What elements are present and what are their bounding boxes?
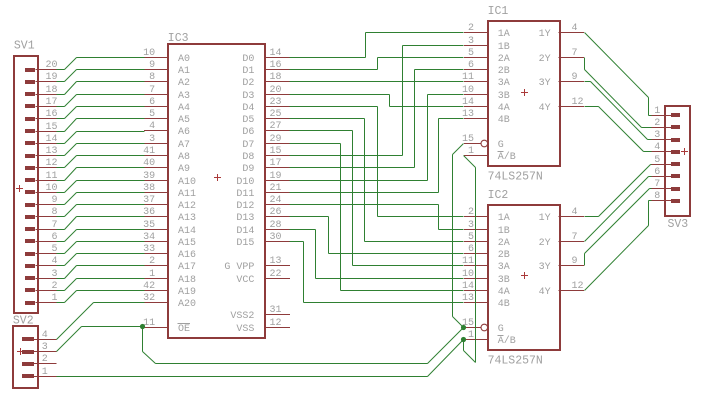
SV3 pin 7	[651, 179, 680, 191]
wire net A11 : SV1 pin 9 to IC3 A11	[57, 193, 145, 205]
svg-text:A17: A17	[178, 262, 196, 273]
IC3 pin A19 (pin 42)	[143, 281, 196, 298]
IC1 pin 3Y (pin 9)	[539, 72, 584, 89]
IC3 pin D8 (pin 15)	[242, 146, 289, 163]
IC2 pin A/B (pin 1)	[464, 330, 516, 347]
svg-text:A12: A12	[178, 201, 196, 212]
svg-text:2A: 2A	[498, 238, 510, 249]
wire net A/B : IC2 A/B junction up to IC1 A/B	[464, 156, 476, 363]
svg-text:A5: A5	[178, 115, 190, 126]
svg-text:A/B: A/B	[498, 151, 516, 163]
IC3 pin A20 (pin 32)	[143, 293, 196, 310]
svg-text:9: 9	[149, 60, 155, 71]
svg-text:D3: D3	[242, 91, 254, 102]
SV1 pin 8	[25, 207, 58, 219]
svg-text:8: 8	[654, 191, 660, 202]
SV1 pin 4	[25, 256, 58, 268]
IC1 pin G (pin 15) with inverter bubble	[462, 134, 504, 151]
SV1 pin 3	[25, 269, 58, 280]
svg-text:18: 18	[45, 85, 57, 96]
IC1 pin A/B (pin 1)	[464, 146, 516, 163]
IC2 pin 3Y (pin 9)	[539, 256, 584, 273]
svg-text:1: 1	[468, 330, 474, 341]
wire net D11 : IC3 D11 to IC1 4B	[290, 119, 464, 193]
SV2 pin 1	[22, 367, 57, 378]
svg-text:D1: D1	[242, 66, 254, 77]
wire net A4 : SV1 pin 16 to IC3 A4	[57, 107, 145, 119]
SV1 pin 13	[25, 146, 58, 158]
svg-text:32: 32	[143, 293, 155, 304]
wire net Y4 : IC1 4Y to SV3 pin 4	[585, 107, 652, 152]
SV1 pin 9	[25, 195, 58, 207]
svg-text:27: 27	[270, 121, 282, 132]
svg-text:D7: D7	[242, 140, 254, 151]
svg-text:A7: A7	[178, 140, 190, 151]
svg-text:4: 4	[572, 207, 578, 218]
wire net A18 : SV1 pin 2 to IC3 A18	[57, 279, 145, 291]
wire net D9 : IC3 D9 to IC1 2B	[290, 70, 464, 168]
svg-text:14: 14	[462, 97, 474, 108]
svg-text:D6: D6	[242, 127, 254, 138]
svg-text:2Y: 2Y	[539, 238, 551, 249]
IC3 pin A0 (pin 10)	[143, 48, 190, 65]
wire net A2 : SV1 pin 18 to IC3 A2	[57, 82, 145, 95]
svg-text:14: 14	[462, 281, 474, 292]
IC2 pin G (pin 15) with inverter bubble	[462, 318, 504, 335]
svg-text:13: 13	[462, 109, 474, 120]
IC3 pin G VPP (pin 13)	[224, 256, 289, 273]
wire net A/B : SV2 pin 1 across to IC2 A/B	[57, 340, 464, 377]
svg-text:D12: D12	[236, 201, 254, 212]
svg-text:4Y: 4Y	[539, 103, 551, 114]
svg-text:D8: D8	[242, 152, 254, 163]
SV1 pin 19	[25, 72, 58, 84]
svg-text:A4: A4	[178, 103, 190, 114]
svg-text:16: 16	[270, 60, 282, 71]
svg-text:34: 34	[143, 232, 155, 243]
IC2 name label	[488, 189, 509, 202]
wire net OE : junction down and across to IC2 G	[143, 327, 464, 364]
wire net D15 : IC3 D15 to IC2 4B	[290, 242, 464, 303]
IC3 pin A5 (pin 5)	[144, 109, 190, 126]
IC1 pin 4Y (pin 12)	[539, 97, 584, 114]
IC3 pin A3 (pin 7)	[144, 85, 190, 102]
SV3 pin 6	[651, 167, 680, 178]
svg-text:3: 3	[654, 130, 660, 141]
svg-text:15: 15	[270, 146, 282, 157]
junction on OE net at IC3 OE pin	[140, 324, 145, 329]
svg-text:1: 1	[149, 269, 155, 280]
svg-text:1B: 1B	[498, 226, 510, 237]
wire net A5 : SV1 pin 15 to IC3 A5	[57, 119, 145, 132]
IC1 pin 4A (pin 14)	[462, 97, 510, 114]
svg-text:6: 6	[468, 60, 474, 71]
svg-text:2B: 2B	[498, 250, 510, 261]
IC1 name label	[488, 5, 509, 18]
SV1 origin cross	[16, 185, 23, 192]
wire net D12 : IC3 D12 to IC2 1B	[290, 205, 464, 230]
svg-text:4: 4	[572, 23, 578, 34]
svg-text:23: 23	[270, 97, 282, 108]
wire net Y5 : IC2 1Y to SV3 pin 5	[585, 165, 652, 217]
svg-text:13: 13	[270, 256, 282, 267]
IC3 pin A9 (pin 40)	[143, 158, 190, 175]
svg-text:1Y: 1Y	[539, 29, 551, 40]
wire net A19 : SV1 pin 1 to IC3 A19	[57, 291, 145, 303]
IC3 pin A14 (pin 35)	[143, 220, 196, 237]
wire net D8 : IC3 D8 to IC1 1B	[290, 46, 464, 156]
svg-text:A14: A14	[178, 226, 196, 237]
svg-text:15: 15	[462, 134, 474, 145]
svg-text:14: 14	[45, 134, 57, 145]
svg-text:21: 21	[270, 183, 282, 194]
svg-text:6: 6	[149, 97, 155, 108]
IC3 pin VSS2 (pin 31)	[230, 305, 289, 322]
svg-text:A20: A20	[178, 299, 196, 310]
svg-text:7: 7	[654, 179, 660, 190]
wire net A14 : SV1 pin 6 to IC3 A14	[57, 230, 145, 242]
IC2 pin 4Y (pin 12)	[539, 281, 584, 298]
svg-text:1B: 1B	[498, 42, 510, 53]
SV1 pin 16	[25, 109, 58, 121]
svg-text:18: 18	[270, 72, 282, 83]
svg-text:5: 5	[149, 109, 155, 120]
svg-text:A19: A19	[178, 287, 196, 298]
wire net D0 : IC3 D0 to IC1 1A	[290, 33, 464, 58]
IC3 pin VCC (pin 22)	[236, 269, 289, 286]
SV3 pin 5	[651, 155, 680, 166]
IC3 pin A4 (pin 6)	[144, 97, 190, 114]
svg-text:28: 28	[270, 220, 282, 231]
svg-text:4: 4	[654, 142, 660, 153]
svg-text:A10: A10	[178, 177, 196, 188]
IC1 pin 2Y (pin 7)	[539, 48, 584, 65]
wire net D7 : IC3 D7 to IC2 4A	[290, 144, 464, 291]
connector SV1 body	[14, 56, 38, 313]
SV1 pin 7	[25, 220, 58, 231]
svg-text:SV1: SV1	[14, 40, 35, 53]
svg-text:6: 6	[468, 244, 474, 255]
svg-text:30: 30	[270, 232, 282, 243]
svg-text:35: 35	[143, 220, 155, 231]
svg-text:D10: D10	[236, 177, 254, 188]
SV1 name label	[14, 40, 35, 53]
wire net D6 : IC3 D6 to IC2 3A	[290, 131, 464, 266]
IC1 pin 1Y (pin 4)	[539, 23, 584, 40]
svg-text:7: 7	[572, 232, 578, 243]
connector SV2 body	[13, 326, 38, 388]
IC3 pin A10 (pin 39)	[143, 171, 196, 188]
svg-text:29: 29	[270, 134, 282, 145]
svg-text:9: 9	[572, 72, 578, 83]
svg-text:A/B: A/B	[498, 335, 516, 347]
svg-text:19: 19	[45, 72, 57, 83]
svg-text:2: 2	[42, 354, 48, 365]
IC3 pin A18 (pin 1)	[144, 269, 196, 286]
SV1 pin 2	[25, 281, 58, 292]
svg-text:2: 2	[149, 256, 155, 267]
svg-text:1: 1	[654, 106, 660, 117]
SV1 pin 6	[25, 232, 58, 243]
svg-text:24: 24	[270, 195, 282, 206]
wire net A20 : SV2 pin 4 to IC3 A20	[57, 303, 145, 340]
svg-text:19: 19	[270, 171, 282, 182]
IC3 pin A15 (pin 34)	[143, 232, 196, 249]
svg-text:4A: 4A	[498, 287, 510, 298]
IC3 pin D11 (pin 21)	[236, 183, 289, 200]
svg-text:D11: D11	[236, 189, 254, 200]
wire net A15 : SV1 pin 5 to IC3 A15	[57, 242, 145, 254]
svg-text:A15: A15	[178, 238, 196, 249]
svg-text:12: 12	[45, 158, 57, 169]
svg-text:2B: 2B	[498, 66, 510, 77]
svg-text:IC2: IC2	[488, 189, 509, 202]
svg-text:OE: OE	[178, 324, 190, 335]
svg-text:13: 13	[462, 293, 474, 304]
svg-text:A13: A13	[178, 213, 196, 224]
svg-text:16: 16	[45, 109, 57, 120]
svg-text:20: 20	[45, 60, 57, 71]
IC3 ROM body	[168, 44, 265, 338]
IC3 pin D0 (pin 14)	[242, 48, 289, 65]
IC2 pin 4B (pin 13)	[462, 293, 510, 310]
SV1 pin 10	[25, 183, 58, 194]
svg-text:3Y: 3Y	[539, 78, 551, 89]
svg-text:G: G	[498, 140, 504, 151]
svg-text:3A: 3A	[498, 78, 510, 89]
svg-text:42: 42	[143, 281, 155, 292]
svg-text:1: 1	[468, 146, 474, 157]
SV3 origin cross	[681, 148, 688, 155]
wire net A7 : SV1 pin 13 to IC3 A7	[57, 144, 145, 156]
svg-text:3A: 3A	[498, 262, 510, 273]
wire net A12 : SV1 pin 8 to IC3 A12	[57, 205, 145, 217]
svg-text:39: 39	[143, 171, 155, 182]
SV2 pin 3	[22, 342, 57, 354]
SV1 pin 12	[25, 158, 58, 170]
SV1 pin 20	[25, 60, 58, 72]
svg-text:7: 7	[572, 48, 578, 59]
IC3 pin D5 (pin 25)	[242, 109, 289, 126]
svg-text:3B: 3B	[498, 275, 510, 286]
svg-text:12: 12	[270, 318, 282, 329]
wire net A8 : SV1 pin 12 to IC3 A8	[57, 156, 145, 168]
IC3 pin D9 (pin 17)	[242, 158, 289, 175]
IC2 pin 2B (pin 6)	[464, 244, 510, 261]
junction on A/B net at IC2 A/B pin	[461, 337, 466, 342]
svg-text:3Y: 3Y	[539, 262, 551, 273]
svg-text:D0: D0	[242, 54, 254, 65]
svg-text:74LS257N: 74LS257N	[488, 355, 543, 368]
svg-text:A6: A6	[178, 127, 190, 138]
svg-text:IC1: IC1	[488, 5, 509, 18]
IC3 pin D1 (pin 16)	[242, 60, 289, 77]
svg-text:7: 7	[149, 85, 155, 96]
svg-text:D14: D14	[236, 226, 254, 237]
IC3 pin D15 (pin 30)	[236, 232, 289, 249]
IC3 pin A11 (pin 38)	[143, 183, 196, 200]
IC1 pin 2B (pin 6)	[464, 60, 510, 77]
wire net D5 : IC3 D5 to IC2 2A	[290, 119, 464, 242]
SV2 pin 4	[22, 330, 57, 341]
IC3 pin A7 (pin 3)	[144, 134, 190, 151]
SV3 pin 8	[651, 191, 680, 203]
svg-text:D15: D15	[236, 238, 254, 249]
IC2 origin cross	[521, 272, 528, 279]
SV2 origin cross	[17, 348, 24, 355]
svg-text:A2: A2	[178, 78, 190, 89]
SV1 pin 1	[25, 293, 58, 305]
wire net A1 : SV1 pin 19 to IC3 A1	[57, 70, 145, 82]
svg-text:3: 3	[468, 36, 474, 47]
connector SV3 body	[665, 106, 690, 216]
svg-text:74LS257N: 74LS257N	[488, 171, 543, 184]
svg-text:12: 12	[572, 97, 584, 108]
svg-text:10: 10	[462, 269, 474, 280]
SV2 pin 2	[22, 354, 57, 366]
IC3 pin OE (pin 11)	[143, 318, 190, 335]
svg-text:4B: 4B	[498, 115, 510, 126]
svg-text:1A: 1A	[498, 29, 510, 40]
IC3 pin A16 (pin 33)	[143, 244, 196, 261]
wire net A13 : SV1 pin 7 to IC3 A13	[57, 217, 145, 230]
svg-text:IC3: IC3	[168, 32, 189, 45]
svg-text:A8: A8	[178, 152, 190, 163]
svg-text:D4: D4	[242, 103, 254, 114]
svg-text:A18: A18	[178, 275, 196, 286]
SV3 name label	[668, 218, 689, 231]
IC3 pin D2 (pin 18)	[242, 72, 289, 89]
IC3 pin VSS (pin 12)	[236, 318, 289, 335]
IC3 pin D7 (pin 29)	[242, 134, 289, 151]
svg-text:31: 31	[270, 305, 282, 316]
IC1 pin 2A (pin 5)	[464, 48, 510, 65]
svg-text:12: 12	[572, 281, 584, 292]
wire net D4 : IC3 D4 to IC2 1A	[290, 107, 464, 217]
IC2 pin 3B (pin 10)	[462, 269, 510, 286]
wire net D1 : IC3 D1 to IC1 2A	[290, 58, 464, 70]
IC3 name label	[168, 32, 189, 45]
svg-text:10: 10	[45, 183, 57, 194]
SV1 pin 5	[25, 244, 58, 256]
svg-text:4: 4	[149, 121, 155, 132]
svg-text:4B: 4B	[498, 299, 510, 310]
wire net A6 : SV1 pin 14 to IC3 A6	[57, 132, 145, 144]
IC1 value label 74LS257N	[488, 171, 543, 184]
IC3 pin A6 (pin 4)	[144, 121, 190, 138]
IC2 pin 1B (pin 3)	[464, 220, 510, 237]
IC1 pin 3B (pin 10)	[462, 85, 510, 102]
svg-text:SV2: SV2	[13, 315, 34, 328]
IC2 pin 2A (pin 5)	[464, 232, 510, 249]
IC3 pin A12 (pin 37)	[143, 195, 196, 212]
wire net A16 : SV1 pin 4 to IC3 A16	[57, 254, 145, 266]
wire net A10 : SV1 pin 10 to IC3 A10	[57, 181, 145, 193]
IC1 pin 1B (pin 3)	[464, 36, 510, 53]
wire net Y3 : IC1 3Y to SV3 pin 3	[585, 82, 652, 140]
svg-text:2Y: 2Y	[539, 54, 551, 65]
svg-text:G: G	[498, 324, 504, 335]
wire net A9 : SV1 pin 11 to IC3 A9	[57, 168, 145, 181]
IC1 origin cross	[521, 89, 528, 96]
svg-text:33: 33	[143, 244, 155, 255]
svg-text:10: 10	[462, 85, 474, 96]
svg-text:6: 6	[654, 167, 660, 178]
SV3 pin 3	[651, 130, 680, 142]
svg-text:37: 37	[143, 195, 155, 206]
svg-text:11: 11	[462, 256, 474, 267]
wire net OE : IC2 G junction up to IC1 G	[453, 144, 464, 328]
IC3 pin A1 (pin 9)	[144, 60, 190, 77]
svg-text:SV3: SV3	[668, 218, 689, 231]
IC3 pin D6 (pin 27)	[242, 121, 289, 138]
wire net D2 : IC3 D2 straight to IC1 3A	[290, 81, 464, 83]
svg-text:36: 36	[143, 207, 155, 218]
svg-text:D9: D9	[242, 164, 254, 175]
svg-text:9: 9	[572, 256, 578, 267]
svg-text:A0: A0	[178, 54, 190, 65]
svg-text:25: 25	[270, 109, 282, 120]
IC3 pin D3 (pin 20)	[242, 85, 289, 102]
svg-text:40: 40	[143, 158, 155, 169]
IC2 pin 1A (pin 2)	[464, 207, 510, 224]
IC2 pin 4A (pin 14)	[462, 281, 510, 298]
svg-text:VCC: VCC	[236, 275, 254, 286]
svg-text:1Y: 1Y	[539, 213, 551, 224]
wire net Y7 : IC2 3Y to SV3 pin 7	[585, 189, 652, 266]
svg-text:A16: A16	[178, 250, 196, 261]
IC3 pin A2 (pin 8)	[144, 72, 190, 89]
svg-text:D2: D2	[242, 78, 254, 89]
svg-text:5: 5	[468, 232, 474, 243]
svg-text:3: 3	[42, 342, 48, 353]
svg-text:4Y: 4Y	[539, 287, 551, 298]
IC2 pin 3A (pin 11)	[462, 256, 510, 273]
SV1 pin 14	[25, 134, 58, 145]
svg-text:17: 17	[45, 97, 57, 108]
IC2 pin 2Y (pin 7)	[539, 232, 584, 249]
svg-text:1A: 1A	[498, 213, 510, 224]
IC3 pin D12 (pin 24)	[236, 195, 289, 212]
IC3 pin D14 (pin 28)	[236, 220, 289, 237]
svg-text:3: 3	[468, 220, 474, 231]
SV3 pin 4	[651, 142, 680, 154]
IC2 value label 74LS257N	[488, 355, 543, 368]
svg-text:5: 5	[468, 48, 474, 59]
svg-text:38: 38	[143, 183, 155, 194]
svg-text:8: 8	[149, 72, 155, 83]
wire net Y2 : IC1 2Y to SV3 pin 2	[585, 58, 652, 128]
SV2 name label	[13, 315, 34, 328]
svg-text:D13: D13	[236, 213, 254, 224]
IC1 pin 3A (pin 11)	[462, 72, 510, 89]
svg-text:3: 3	[149, 134, 155, 145]
IC3 pin D4 (pin 23)	[242, 97, 289, 114]
wire net Y8 : IC2 4Y to SV3 pin 8	[585, 201, 652, 291]
svg-text:G VPP: G VPP	[224, 262, 254, 273]
wire net D3 : IC3 D3 to IC1 4A	[290, 95, 464, 107]
svg-text:20: 20	[270, 85, 282, 96]
svg-text:A3: A3	[178, 91, 190, 102]
svg-text:11: 11	[45, 171, 57, 182]
wire net OE : SV2 pin 3 to IC3 OE junction	[57, 327, 143, 352]
svg-text:26: 26	[270, 207, 282, 218]
svg-text:41: 41	[143, 146, 155, 157]
svg-text:D5: D5	[242, 115, 254, 126]
SV3 pin 1	[651, 106, 680, 117]
svg-text:2: 2	[468, 207, 474, 218]
svg-text:17: 17	[270, 158, 282, 169]
